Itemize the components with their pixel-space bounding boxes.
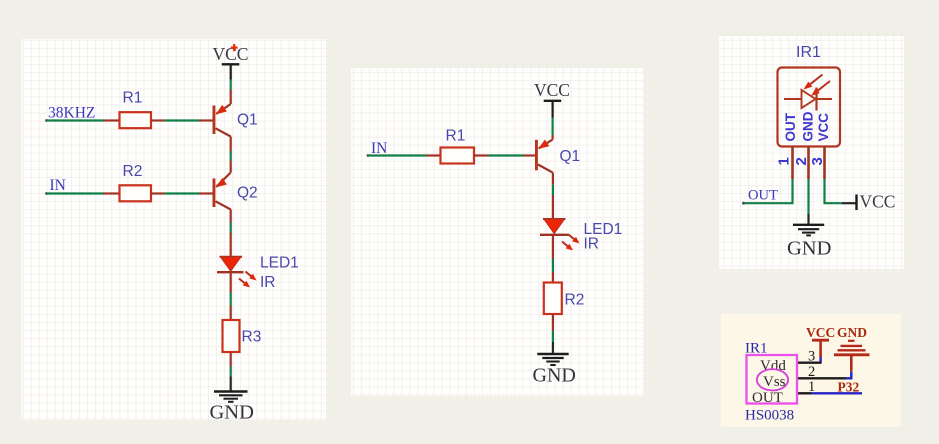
LED LED1 (IR emitter) bbox=[217, 254, 299, 291]
power bar VCC bbox=[812, 340, 829, 357]
power port VCC bbox=[857, 192, 896, 212]
svg-text:R1: R1 bbox=[123, 90, 143, 107]
wire R2 to GND bbox=[552, 314, 554, 354]
svg-text:LED1: LED1 bbox=[260, 254, 299, 271]
wire R3 to GND bbox=[230, 352, 232, 392]
power port VCC bbox=[534, 80, 570, 118]
svg-text:1: 1 bbox=[808, 379, 815, 395]
pin 3 wire bbox=[797, 362, 822, 364]
svg-text:Q1: Q1 bbox=[237, 112, 258, 129]
svg-text:OUT: OUT bbox=[752, 390, 783, 406]
LED LED1 (IR emitter) bbox=[540, 219, 622, 252]
svg-text:VCC: VCC bbox=[816, 113, 831, 142]
transistor Q1 (PNP) bbox=[213, 104, 258, 137]
svg-text:Q2: Q2 bbox=[237, 185, 258, 202]
incoming IR arrows bbox=[804, 75, 831, 97]
wire GND to pin2 bbox=[850, 372, 852, 379]
wire pin3 to VCC bbox=[825, 179, 856, 203]
svg-text:Vss: Vss bbox=[763, 374, 786, 390]
wire pin1 to OUT bbox=[744, 179, 793, 203]
svg-text:IN: IN bbox=[50, 177, 66, 194]
PANEL 2 : single-transistor IR driver bbox=[351, 68, 644, 396]
svg-text:VCC: VCC bbox=[534, 80, 570, 100]
wire IN to R2 bbox=[47, 192, 104, 194]
wire Q1 collector to LED1 bbox=[552, 173, 554, 219]
wire LED1 to R2 bbox=[552, 235, 554, 283]
svg-text:IR1: IR1 bbox=[796, 44, 821, 61]
svg-text:GND: GND bbox=[533, 365, 576, 387]
ground GND bbox=[210, 392, 254, 424]
svg-text:VCC: VCC bbox=[806, 325, 835, 340]
pin R1.2 bbox=[151, 119, 165, 121]
wire Q2 collector to LED1 bbox=[230, 210, 232, 257]
photodiode symbol bbox=[784, 88, 832, 111]
svg-text:OUT: OUT bbox=[783, 112, 798, 141]
pin Q2 base bbox=[199, 192, 213, 194]
wire R2 to Q2 base bbox=[165, 192, 200, 194]
pin 2 stub bbox=[807, 147, 810, 179]
resistor R2 bbox=[544, 283, 585, 315]
port dot node 38KHZ bbox=[45, 119, 48, 122]
power port VCC bbox=[213, 44, 249, 80]
earth ground bbox=[834, 341, 870, 372]
svg-text:GND: GND bbox=[837, 325, 867, 340]
ground GND bbox=[787, 225, 831, 260]
svg-text:R2: R2 bbox=[565, 291, 585, 308]
pin Q1 base bbox=[524, 154, 537, 156]
pin R1.1 bbox=[427, 154, 441, 156]
PANEL 3 : IR receiver module IR1 bbox=[719, 36, 904, 269]
svg-text:VCC: VCC bbox=[860, 192, 896, 212]
svg-text:HS0038: HS0038 bbox=[745, 408, 794, 424]
svg-text:Q1: Q1 bbox=[560, 148, 581, 165]
svg-text:2: 2 bbox=[808, 364, 815, 380]
PANEL 4 : HS0038 receiver bbox=[721, 314, 901, 427]
svg-text:2: 2 bbox=[793, 157, 810, 165]
pin R1.1 bbox=[104, 119, 120, 121]
symbol circle Vss bbox=[757, 369, 788, 390]
svg-text:3: 3 bbox=[808, 348, 815, 364]
svg-text:R2: R2 bbox=[123, 163, 143, 180]
transistor Q2 (PNP) bbox=[213, 173, 258, 210]
port dot node IN bbox=[367, 154, 370, 157]
svg-text:1: 1 bbox=[776, 157, 793, 165]
svg-text:IN: IN bbox=[371, 140, 387, 157]
pin R2.2 bbox=[151, 192, 165, 194]
wire Q1 collector to Q2 emitter bbox=[230, 137, 232, 173]
resistor R3 bbox=[223, 320, 262, 352]
resistor R2 bbox=[120, 163, 152, 201]
wire VCC to pin3 bbox=[819, 357, 821, 363]
wire pin2 to GND bbox=[807, 179, 809, 225]
svg-text:VCC: VCC bbox=[213, 44, 249, 64]
resistor R1 bbox=[120, 90, 152, 129]
pin Q1 base bbox=[199, 119, 213, 121]
wire 38KHZ to R1 bbox=[47, 119, 104, 121]
PANEL 1 : dual-transistor IR driver bbox=[21, 39, 326, 420]
svg-text:R3: R3 bbox=[242, 328, 262, 345]
svg-text:IR1: IR1 bbox=[745, 341, 768, 357]
ground GND bbox=[533, 354, 576, 387]
wire VCC to Q1 emitter bbox=[230, 80, 232, 105]
pin R1.2 bbox=[474, 154, 488, 156]
svg-text:IR: IR bbox=[584, 235, 600, 252]
pin 3 stub bbox=[823, 147, 826, 179]
svg-text:GND: GND bbox=[210, 401, 254, 420]
wire R1 to Q1 base bbox=[488, 154, 524, 156]
port dot node IN bbox=[45, 192, 48, 195]
pin 1 stub bbox=[791, 147, 794, 179]
resistor R1 bbox=[441, 127, 475, 163]
svg-text:IR: IR bbox=[260, 274, 276, 291]
svg-text:3: 3 bbox=[809, 157, 826, 165]
receiver body HS0038 bbox=[747, 355, 798, 404]
svg-text:38KHZ: 38KHZ bbox=[48, 104, 95, 121]
pin 2 wire bbox=[797, 377, 853, 379]
transistor Q1 (PNP) bbox=[535, 140, 580, 173]
svg-text:R1: R1 bbox=[446, 127, 466, 144]
IR receiver body U:IR1 bbox=[778, 68, 841, 147]
svg-text:P32: P32 bbox=[838, 380, 860, 395]
svg-text:GND: GND bbox=[787, 238, 831, 260]
pin R2.1 bbox=[104, 192, 120, 194]
pin 1 wire bbox=[797, 392, 862, 394]
svg-text:OUT: OUT bbox=[748, 188, 778, 204]
svg-text:GND: GND bbox=[800, 111, 815, 141]
wire LED1 to R3 bbox=[230, 272, 232, 320]
wire VCC to Q1 emitter bbox=[551, 118, 553, 140]
wire IN to R1 bbox=[368, 154, 427, 156]
wire R1 to Q1 base bbox=[165, 119, 200, 121]
port dot node OUT bbox=[742, 202, 745, 205]
